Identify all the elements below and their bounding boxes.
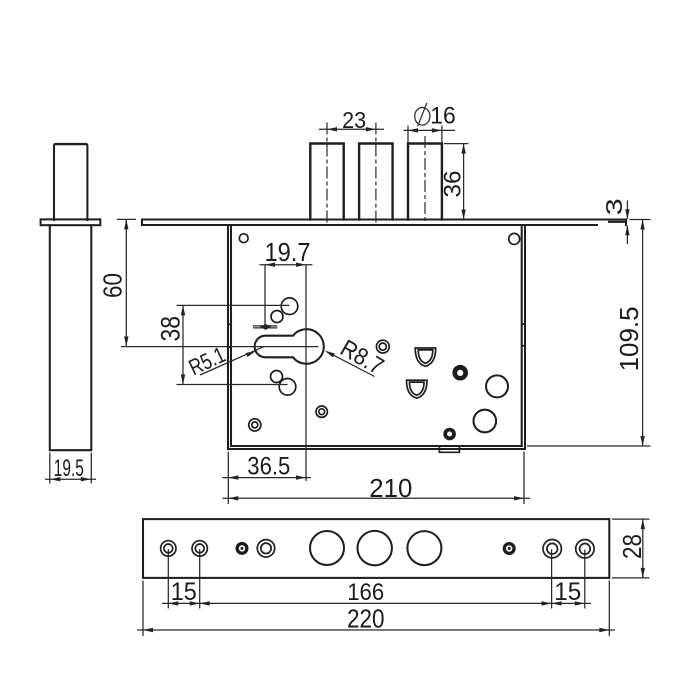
dim 19.7 arrows: [265, 263, 275, 267]
case inner bottom line: [231, 445, 522, 447]
dim 220 line: [137, 629, 615, 631]
dim 23 line: [319, 128, 384, 130]
dim 166 arrows: [200, 601, 210, 605]
keyhole vertical centerline: [305, 265, 307, 481]
svg-text:16: 16: [430, 103, 456, 130]
case outer outline: [228, 225, 525, 449]
dim phi16 symbol: [415, 103, 430, 127]
dim 210 extension line right: [523, 452, 525, 505]
svg-text:220: 220: [347, 606, 385, 634]
hole A above keyhole: [281, 298, 298, 315]
dim 36 arrows: [461, 144, 465, 154]
grommet F: [249, 419, 261, 431]
faceplate bottom line: [142, 224, 597, 226]
dim 15R extension lines: [552, 549, 585, 608]
svg-text:109.5: 109.5: [614, 306, 644, 371]
dim phi16 line: [404, 129, 456, 131]
dim R8.7 leader: [327, 352, 375, 377]
faceplate right step line: [609, 221, 626, 223]
dim 19.5 line: [45, 478, 96, 480]
dim 23 arrows: [327, 127, 337, 131]
screw hole top-right: [509, 233, 520, 244]
svg-text:28: 28: [617, 534, 647, 559]
dim 28 extension lines: [612, 519, 650, 578]
keyhole horizontal centerline: [121, 346, 319, 348]
post 2: [359, 144, 393, 220]
dim phi16 extension lines: [408, 126, 442, 144]
side view: cylinder pin top: [54, 144, 87, 220]
svg-text:15: 15: [554, 578, 581, 606]
post 1: [310, 144, 343, 220]
svg-text:210: 210: [369, 473, 412, 503]
post 2 centerline: [375, 123, 377, 225]
bottom big hole 3: [407, 531, 441, 565]
dim 28 arrows: [641, 519, 645, 529]
bottom big hole 1: [310, 531, 344, 565]
svg-text:19.7: 19.7: [265, 239, 311, 267]
grommet G: [376, 340, 389, 353]
grommet E: [316, 406, 327, 417]
dim 15L extension lines: [168, 549, 199, 609]
dim 19.7 line: [260, 264, 313, 266]
side view: cylinder top thick edge: [56, 143, 87, 145]
dim 3 arrows: [625, 209, 629, 219]
bottom ring 1: [161, 541, 176, 556]
shield cutout 1: [415, 348, 436, 366]
shield cutout 2: [407, 380, 428, 398]
case left edge notch ticks: [228, 324, 231, 347]
rivet I filled: [443, 428, 456, 441]
dim 19.5 arrows: [50, 477, 60, 481]
dim 3 arrow lines: [626, 201, 628, 245]
svg-text:166: 166: [347, 579, 384, 606]
bottom big hole 2: [358, 531, 392, 565]
dim 60 top tick: [117, 218, 136, 220]
dim 109.5 arrows: [640, 220, 644, 230]
dim 36 extension line: [444, 143, 469, 145]
svg-text:23: 23: [342, 107, 366, 133]
case bottom tab: [439, 446, 459, 452]
dim R5.1 leader: [200, 346, 264, 375]
rivet H filled: [452, 365, 468, 381]
dim 36.5 extension line left: [227, 452, 229, 505]
bottom ring 2: [192, 541, 207, 556]
hole B above keyhole: [271, 311, 283, 323]
svg-text:3: 3: [601, 198, 627, 215]
bottom view plate outline: [143, 519, 609, 578]
case inner left line: [230, 225, 232, 446]
dim 60 arrows: [124, 219, 128, 229]
dim 210 arrows: [228, 496, 238, 500]
svg-text:36: 36: [439, 171, 466, 198]
bottom dims shared line: [162, 602, 591, 604]
svg-text:R5.1: R5.1: [185, 342, 229, 380]
bottom screw right filled: [503, 542, 516, 555]
side view: flange collar: [41, 219, 101, 225]
faceplate top line: [142, 218, 626, 220]
side view: body: [50, 225, 92, 450]
dim 28 line: [642, 519, 644, 578]
hole J: [486, 375, 508, 397]
slot width marker diamond: [260, 324, 271, 330]
dim R5.1 arrow: [246, 349, 257, 357]
bottom ring 5: [576, 540, 594, 558]
faceplate end caps: [142, 220, 626, 226]
slot width marker line: [253, 326, 277, 328]
svg-text:15: 15: [171, 578, 197, 606]
bottom screw left filled: [236, 542, 249, 555]
case right edge notch ticks: [522, 324, 525, 346]
keyhole outline: [255, 329, 324, 364]
dim 210 line: [223, 497, 531, 499]
post 3 centerline: [424, 136, 426, 225]
bottom ring 4: [543, 540, 561, 558]
screw hole top-left: [239, 234, 248, 243]
dim 38 extension lines: [177, 305, 290, 384]
svg-text:36.5: 36.5: [247, 453, 290, 481]
dim 38 line: [182, 305, 184, 384]
dim 220 extension lines: [143, 581, 609, 637]
dim R8.7 arrow: [324, 349, 335, 358]
dim 220 arrows: [143, 628, 153, 632]
dim 36.5 arrows: [228, 475, 238, 479]
dim 15R arrows: [552, 601, 562, 605]
dim 15L arrows: [168, 601, 178, 605]
hole C below keyhole: [271, 371, 283, 383]
case inner right line: [521, 225, 523, 446]
dim 109.5 extension lines: [527, 220, 651, 447]
bottom ring 3: [257, 540, 274, 557]
dim 38 arrows: [181, 305, 185, 315]
dim 19.7 extension line left: [264, 265, 266, 328]
post 1 centerline: [326, 123, 328, 225]
dim 36.5 line: [223, 477, 312, 479]
svg-text:60: 60: [100, 273, 128, 298]
post 3: [408, 144, 442, 220]
dim 36 line: [463, 144, 465, 220]
hole K: [474, 410, 497, 433]
dim 60 line: [125, 219, 127, 346]
hole D below keyhole: [279, 379, 296, 396]
dim 109.5 line: [642, 220, 644, 447]
svg-text:38: 38: [155, 316, 185, 342]
dim phi16 arrows: [408, 128, 418, 132]
dim 19.5 extension lines: [50, 453, 92, 484]
svg-text:19.5: 19.5: [54, 455, 84, 482]
